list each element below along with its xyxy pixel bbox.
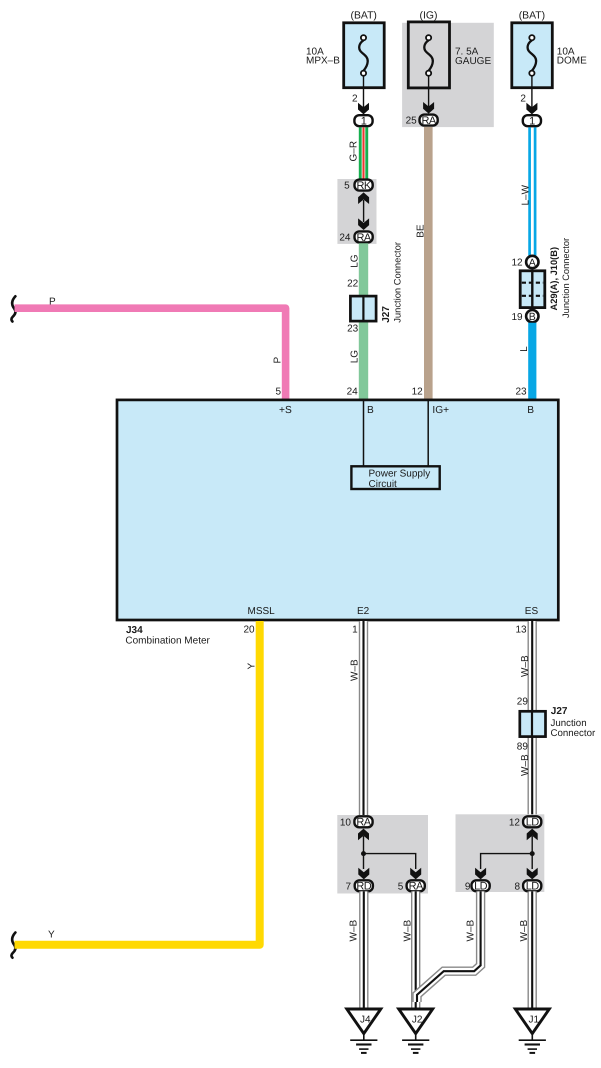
connector circle B [526,310,538,322]
svg-text:23: 23 [347,324,359,335]
wire G-R (green/red) [359,127,368,180]
svg-text:5: 5 [275,387,281,398]
wire LG (light green) [359,243,368,400]
svg-text:(BAT): (BAT) [351,10,377,21]
svg-text:24: 24 [339,232,351,243]
svg-text:RK: RK [357,180,372,192]
svg-text:P: P [272,357,283,364]
wire L (blue) [528,323,536,400]
svg-text:IG+: IG+ [432,405,449,416]
ground symbol J1 [519,1034,546,1053]
break symbol (yellow wire) [11,933,15,958]
svg-text:J1: J1 [529,1015,540,1026]
svg-text:9: 9 [465,881,471,892]
svg-text:G–R: G–R [348,141,359,162]
svg-text:(BAT): (BAT) [519,10,545,21]
svg-text:29: 29 [517,697,529,708]
svg-text:10: 10 [340,817,352,828]
svg-text:LG: LG [350,254,361,268]
arrow into connector RA [423,102,434,114]
feed wire IG+ to power supply [427,401,429,466]
ground symbol J2 [402,1034,429,1053]
connector oval 1 (fuse F3) [523,115,541,126]
svg-text:P: P [49,296,56,307]
svg-text:+S: +S [279,405,292,416]
connector oval 1 (fuse F1) [354,115,372,126]
fuse F1 10A MPX-B [344,23,385,88]
wire P (pink) [15,308,286,400]
svg-text:2: 2 [352,94,358,105]
stem wire between arrows [363,200,365,222]
svg-text:25: 25 [406,116,418,127]
arrow into connector 1 (F3) [526,103,537,115]
svg-text:BE: BE [416,224,427,238]
svg-text:Combination Meter: Combination Meter [125,636,210,647]
svg-text:Y: Y [48,930,55,941]
fuse F3 10A DOME [512,23,553,88]
gray panel behind IG fuse [402,23,494,127]
svg-text:Junction Connector: Junction Connector [561,238,571,318]
svg-text:(IG): (IG) [420,10,438,21]
svg-text:5: 5 [398,881,404,892]
svg-text:MPX–B: MPX–B [306,56,340,67]
svg-text:W–B: W–B [520,754,531,776]
junction dot [530,851,535,856]
svg-text:1: 1 [361,116,367,128]
svg-text:LD: LD [526,881,540,893]
svg-text:RA: RA [357,232,372,244]
arrow up to LD12 [527,829,538,841]
svg-text:W–B: W–B [349,920,360,942]
svg-text:89: 89 [517,742,529,753]
svg-text:RA: RA [422,115,437,127]
svg-text:12: 12 [511,258,523,269]
svg-text:A: A [529,257,536,269]
junction dot [361,851,366,856]
fuse F2 7.5A GAUGE [408,22,449,88]
svg-text:B: B [527,405,534,416]
svg-text:RA: RA [409,881,424,893]
lead from fuse F3 [531,76,533,108]
feed wire B to power supply [363,401,365,466]
combination meter box J34 [117,400,558,620]
svg-text:Y: Y [247,663,258,670]
ground symbol J4 [350,1034,377,1053]
arrow down to LD9 [475,868,486,880]
svg-text:W–B: W–B [402,920,413,942]
svg-text:7: 7 [345,881,351,892]
stem wire to junction [531,836,533,854]
svg-text:12: 12 [412,387,424,398]
svg-text:5: 5 [344,181,350,192]
svg-text:19: 19 [511,312,523,323]
svg-text:W–B: W–B [350,659,361,681]
svg-text:J4: J4 [360,1015,371,1026]
wire Y (yellow) [15,621,260,945]
branch wire to RA5 [364,854,416,869]
svg-text:2: 2 [520,94,526,105]
svg-text:W–B: W–B [465,920,476,942]
ground triangle J1 [515,1009,549,1034]
ground triangle J2 [399,1009,433,1034]
svg-text:W–B: W–B [520,655,531,677]
svg-text:1: 1 [352,625,358,636]
svg-text:MSSL: MSSL [248,606,276,617]
svg-text:22: 22 [347,279,359,290]
wire L-W (blue/white) [530,127,536,255]
svg-text:8: 8 [514,881,520,892]
svg-text:RA: RA [356,817,371,829]
arrow down to LD8 [527,868,538,880]
svg-text:W–B: W–B [519,920,530,942]
lead from fuse F2 [428,76,430,107]
stem wire to junction [363,836,365,854]
lead from fuse F1 [363,76,365,108]
svg-text:Circuit: Circuit [369,479,398,490]
svg-text:LD: LD [474,881,488,893]
svg-text:GAUGE: GAUGE [455,56,491,67]
svg-text:20: 20 [243,625,255,636]
svg-text:L: L [519,346,530,352]
svg-text:J27: J27 [381,306,392,323]
branch wire to LD9 [481,854,533,869]
wire W-B from ES upper [528,621,537,711]
svg-text:Junction Connector: Junction Connector [392,242,403,323]
wire W-B from LD9 to ground J2 [417,891,481,1002]
svg-text:E2: E2 [357,606,370,617]
junction connector A29(A), J10(B) [520,271,545,308]
junction connector J27 (upper) [350,296,376,321]
arrow down to RA5 [410,868,421,880]
connector block (gray) RA/RD/RA [337,815,428,894]
wire BE (beige) [424,127,433,400]
svg-text:J2: J2 [412,1015,423,1026]
svg-text:24: 24 [347,387,359,398]
svg-text:B: B [529,311,536,323]
power supply circuit box [351,466,439,489]
svg-text:J27: J27 [551,706,568,717]
svg-text:J34: J34 [126,625,143,636]
svg-text:ES: ES [525,606,539,617]
svg-text:L–W: L–W [521,184,532,205]
stem wire down [531,854,533,869]
svg-text:Power Supply: Power Supply [369,468,431,479]
ground triangle J4 [347,1009,381,1034]
junction connector J27 (lower) [520,711,546,736]
wire W-B to ground J2 [411,891,420,1010]
arrow up to RK [358,192,369,204]
arrow down to RA [358,218,369,230]
svg-text:LG: LG [350,350,361,364]
wire W-B to ground J1 [528,891,537,1010]
svg-text:12: 12 [509,817,521,828]
arrow into connector 1 [358,103,369,115]
break symbol (pink wire) [11,296,15,321]
svg-text:23: 23 [515,387,527,398]
connector circle A [526,256,538,268]
arrow up to RA10 [358,829,369,841]
connector oval RA (fuse F2) [420,115,438,126]
stem wire down [363,854,365,869]
svg-text:B: B [367,405,374,416]
svg-text:RD: RD [356,881,371,893]
svg-text:13: 13 [515,625,527,636]
svg-text:DOME: DOME [557,56,587,67]
connector block (gray) LD/LD/LD [456,814,545,892]
svg-text:LD: LD [526,817,540,829]
svg-text:A29(A), J10(B): A29(A), J10(B) [549,247,559,311]
wire W-B from E2 [359,621,368,816]
connector block (gray) RK/RA [337,179,376,244]
wire W-B from ES lower [528,737,537,815]
svg-text:Connector: Connector [551,728,596,739]
svg-text:1: 1 [529,116,535,128]
wire W-B to ground J4 [359,891,368,1010]
arrow down to RD [358,868,369,880]
